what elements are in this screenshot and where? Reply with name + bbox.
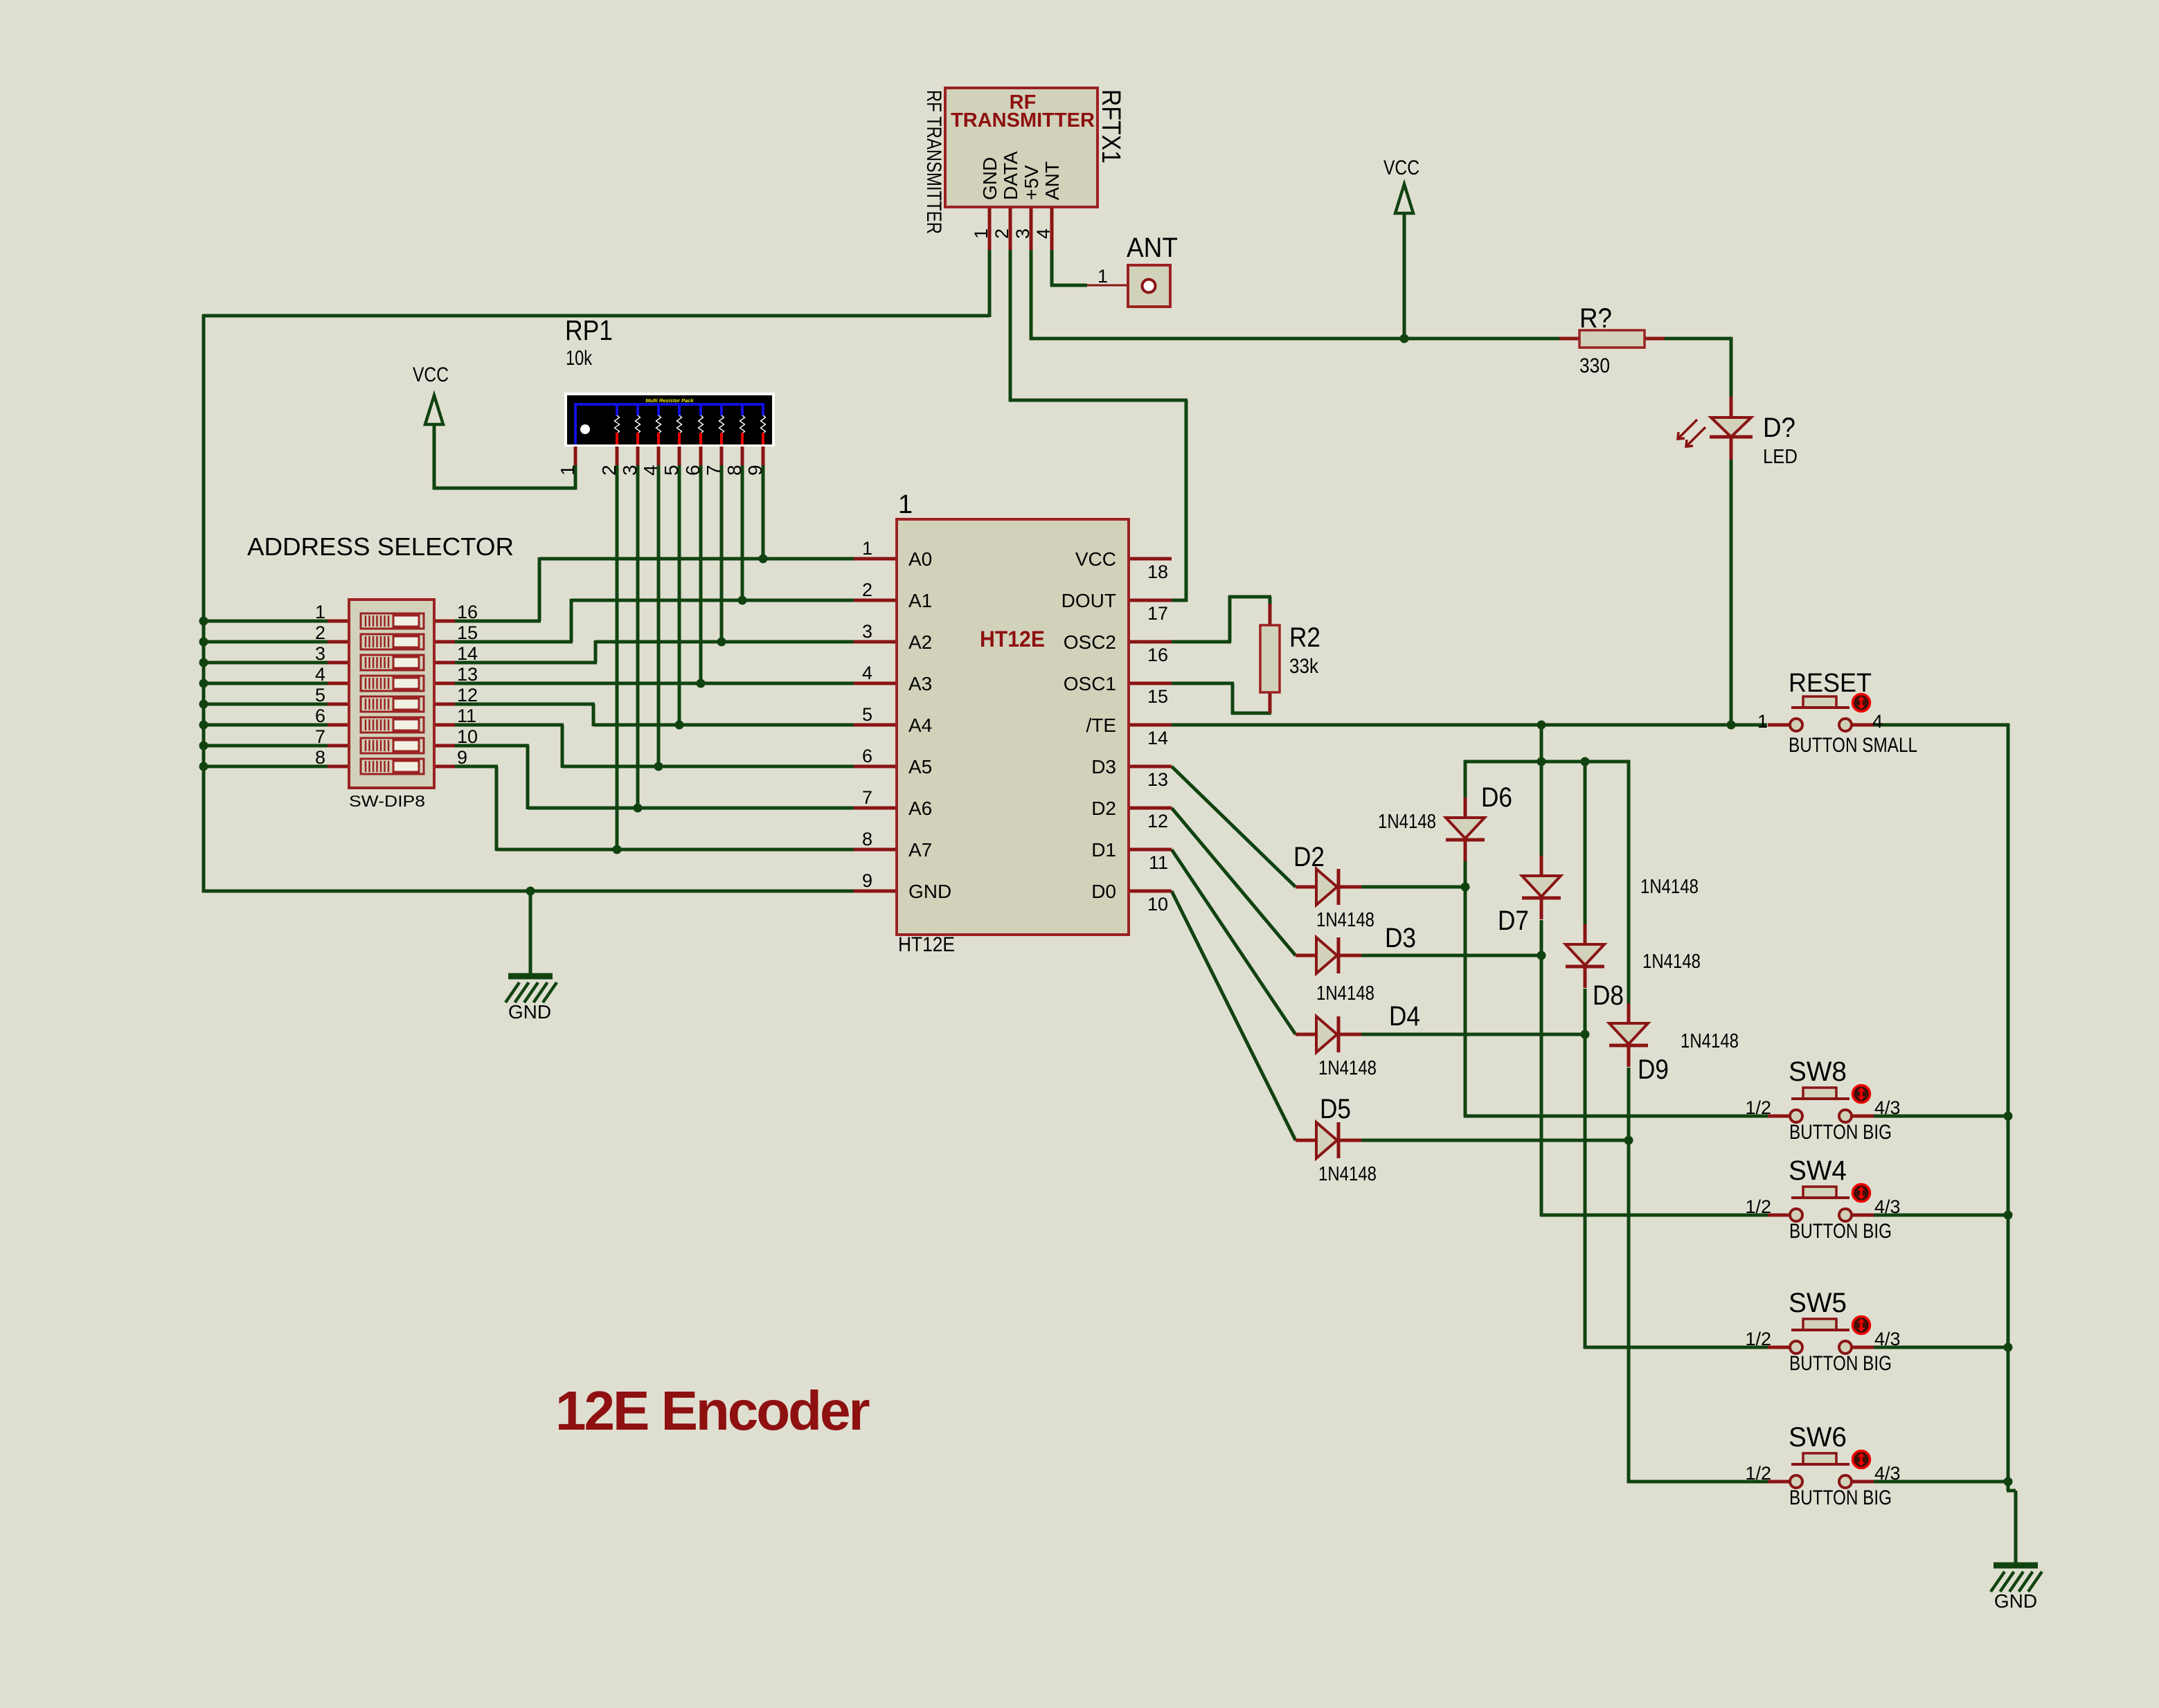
svg-text:RP1: RP1 bbox=[565, 314, 613, 346]
svg-text:LED: LED bbox=[1763, 446, 1798, 468]
svg-text:8: 8 bbox=[724, 465, 745, 476]
svg-text:17: 17 bbox=[1147, 603, 1168, 624]
svg-text:1/2: 1/2 bbox=[1745, 1329, 1771, 1349]
svg-text:330: 330 bbox=[1579, 354, 1610, 377]
svg-text:D1: D1 bbox=[1091, 839, 1116, 861]
svg-text:5: 5 bbox=[315, 685, 325, 705]
svg-text:1N4148: 1N4148 bbox=[1316, 982, 1374, 1005]
svg-text:BUTTON BIG: BUTTON BIG bbox=[1789, 1121, 1892, 1144]
svg-text:1N4148: 1N4148 bbox=[1642, 951, 1701, 973]
svg-text:D7: D7 bbox=[1498, 906, 1529, 936]
svg-text:11: 11 bbox=[1149, 852, 1168, 873]
svg-text:1/2: 1/2 bbox=[1745, 1463, 1771, 1484]
svg-text:10: 10 bbox=[457, 726, 478, 747]
svg-text:1: 1 bbox=[971, 228, 992, 239]
svg-text:4/3: 4/3 bbox=[1874, 1329, 1901, 1349]
svg-text:D2: D2 bbox=[1091, 798, 1116, 819]
svg-text:BUTTON BIG: BUTTON BIG bbox=[1789, 1220, 1892, 1243]
svg-text:8: 8 bbox=[315, 747, 325, 768]
svg-text:12E Encoder: 12E Encoder bbox=[555, 1380, 870, 1441]
svg-text:R2: R2 bbox=[1289, 622, 1320, 653]
svg-text:18: 18 bbox=[1147, 561, 1168, 582]
svg-text:12: 12 bbox=[457, 685, 478, 705]
svg-text:RF TRANSMITTER: RF TRANSMITTER bbox=[922, 90, 945, 234]
svg-text:D?: D? bbox=[1763, 413, 1795, 443]
svg-text:1: 1 bbox=[898, 490, 913, 519]
svg-text:HT12E: HT12E bbox=[980, 627, 1045, 651]
svg-text:1N4148: 1N4148 bbox=[1318, 1057, 1377, 1079]
svg-text:2: 2 bbox=[598, 465, 620, 476]
svg-text:DOUT: DOUT bbox=[1061, 590, 1116, 611]
svg-text:GND: GND bbox=[508, 1001, 551, 1023]
svg-text:GND: GND bbox=[979, 157, 1001, 200]
svg-text:OSC1: OSC1 bbox=[1064, 673, 1116, 694]
svg-text:/TE: /TE bbox=[1086, 714, 1116, 736]
svg-text:8: 8 bbox=[862, 829, 872, 849]
svg-text:+5V: +5V bbox=[1021, 165, 1042, 200]
svg-text:3: 3 bbox=[315, 643, 325, 664]
svg-text:D6: D6 bbox=[1481, 782, 1512, 813]
svg-text:4: 4 bbox=[1872, 711, 1883, 732]
svg-text:15: 15 bbox=[457, 622, 478, 643]
svg-text:A6: A6 bbox=[908, 798, 932, 819]
svg-text:DATA: DATA bbox=[1000, 151, 1021, 200]
svg-text:5: 5 bbox=[661, 465, 682, 476]
svg-text:VCC: VCC bbox=[1383, 156, 1419, 179]
svg-text:5: 5 bbox=[862, 704, 872, 725]
svg-text:SW-DIP8: SW-DIP8 bbox=[349, 792, 425, 810]
svg-text:4: 4 bbox=[640, 465, 661, 476]
svg-text:A2: A2 bbox=[908, 631, 932, 653]
svg-text:D3: D3 bbox=[1091, 756, 1116, 777]
svg-text:1N4148: 1N4148 bbox=[1378, 811, 1436, 833]
svg-text:4/3: 4/3 bbox=[1874, 1097, 1901, 1118]
svg-text:1/2: 1/2 bbox=[1745, 1196, 1771, 1217]
svg-text:GND: GND bbox=[1994, 1590, 2037, 1612]
svg-text:D0: D0 bbox=[1091, 881, 1116, 902]
svg-text:A5: A5 bbox=[908, 756, 932, 777]
svg-text:BUTTON SMALL: BUTTON SMALL bbox=[1789, 734, 1917, 757]
svg-text:1: 1 bbox=[862, 538, 872, 559]
svg-text:7: 7 bbox=[703, 465, 724, 476]
svg-text:ADDRESS SELECTOR: ADDRESS SELECTOR bbox=[247, 532, 514, 561]
svg-text:1N4148: 1N4148 bbox=[1318, 1163, 1377, 1185]
svg-text:11: 11 bbox=[457, 705, 476, 726]
svg-text:D4: D4 bbox=[1389, 1001, 1420, 1032]
svg-text:1N4148: 1N4148 bbox=[1640, 876, 1699, 898]
svg-text:Multi Resistor Pack: Multi Resistor Pack bbox=[645, 397, 694, 404]
svg-text:R?: R? bbox=[1579, 303, 1612, 334]
svg-text:TRANSMITTER: TRANSMITTER bbox=[951, 109, 1095, 132]
svg-text:9: 9 bbox=[457, 747, 467, 768]
svg-text:ANT: ANT bbox=[1041, 161, 1063, 200]
svg-text:9: 9 bbox=[744, 465, 766, 476]
svg-text:4/3: 4/3 bbox=[1874, 1463, 1901, 1484]
svg-text:VCC: VCC bbox=[1075, 548, 1116, 570]
svg-text:D2: D2 bbox=[1293, 842, 1325, 872]
svg-text:A3: A3 bbox=[908, 673, 932, 694]
svg-text:SW5: SW5 bbox=[1789, 1288, 1847, 1318]
svg-text:HT12E: HT12E bbox=[898, 933, 955, 956]
svg-text:A0: A0 bbox=[908, 548, 932, 570]
svg-text:33k: 33k bbox=[1289, 655, 1319, 678]
svg-text:4: 4 bbox=[315, 664, 325, 685]
svg-text:GND: GND bbox=[908, 881, 951, 902]
svg-text:4/3: 4/3 bbox=[1874, 1196, 1901, 1217]
svg-text:10: 10 bbox=[1147, 894, 1168, 915]
svg-text:7: 7 bbox=[862, 787, 872, 808]
svg-text:SW4: SW4 bbox=[1789, 1156, 1847, 1186]
svg-text:15: 15 bbox=[1147, 686, 1168, 707]
svg-text:1: 1 bbox=[315, 602, 325, 622]
svg-text:1: 1 bbox=[1098, 266, 1108, 287]
svg-text:RESET: RESET bbox=[1789, 669, 1872, 698]
svg-text:SW8: SW8 bbox=[1789, 1057, 1847, 1087]
svg-text:A1: A1 bbox=[908, 590, 932, 611]
svg-text:16: 16 bbox=[1147, 645, 1168, 665]
svg-text:VCC: VCC bbox=[413, 363, 449, 386]
svg-text:1N4148: 1N4148 bbox=[1316, 909, 1374, 931]
svg-text:2: 2 bbox=[315, 622, 325, 643]
svg-text:3: 3 bbox=[862, 621, 872, 642]
svg-text:6: 6 bbox=[682, 465, 704, 476]
svg-text:14: 14 bbox=[1147, 728, 1168, 748]
svg-text:7: 7 bbox=[315, 726, 325, 747]
svg-text:OSC2: OSC2 bbox=[1064, 631, 1116, 653]
svg-text:A7: A7 bbox=[908, 839, 932, 861]
svg-text:14: 14 bbox=[457, 643, 478, 664]
svg-text:1N4148: 1N4148 bbox=[1681, 1030, 1739, 1052]
svg-text:A4: A4 bbox=[908, 714, 932, 736]
svg-text:BUTTON BIG: BUTTON BIG bbox=[1789, 1486, 1892, 1509]
svg-text:2: 2 bbox=[862, 579, 872, 600]
svg-text:4: 4 bbox=[862, 663, 872, 683]
svg-text:16: 16 bbox=[457, 602, 478, 622]
svg-text:4: 4 bbox=[1033, 228, 1054, 239]
svg-text:6: 6 bbox=[315, 705, 325, 726]
svg-text:1/2: 1/2 bbox=[1745, 1097, 1771, 1118]
svg-text:6: 6 bbox=[862, 746, 872, 766]
svg-text:13: 13 bbox=[457, 664, 478, 685]
svg-text:D5: D5 bbox=[1320, 1094, 1351, 1124]
svg-text:D8: D8 bbox=[1593, 980, 1624, 1011]
svg-text:D3: D3 bbox=[1385, 923, 1416, 953]
svg-text:12: 12 bbox=[1147, 811, 1168, 831]
svg-text:10k: 10k bbox=[566, 347, 593, 370]
svg-text:3: 3 bbox=[1012, 228, 1033, 239]
svg-text:RFTX1: RFTX1 bbox=[1096, 89, 1125, 163]
svg-text:1: 1 bbox=[1757, 711, 1768, 732]
svg-text:13: 13 bbox=[1147, 769, 1168, 790]
svg-text:9: 9 bbox=[862, 870, 872, 891]
svg-text:2: 2 bbox=[992, 228, 1012, 239]
svg-text:ANT: ANT bbox=[1127, 233, 1178, 263]
svg-text:SW6: SW6 bbox=[1789, 1422, 1847, 1453]
svg-text:D9: D9 bbox=[1638, 1054, 1669, 1085]
svg-text:3: 3 bbox=[619, 465, 640, 476]
svg-text:1: 1 bbox=[557, 465, 578, 476]
svg-text:BUTTON BIG: BUTTON BIG bbox=[1789, 1352, 1892, 1375]
